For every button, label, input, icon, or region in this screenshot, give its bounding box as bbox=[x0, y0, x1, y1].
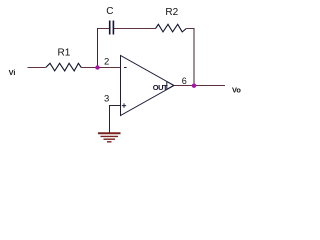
svg-text:R1: R1 bbox=[58, 47, 71, 58]
svg-text:Vi: Vi bbox=[9, 68, 16, 77]
svg-text:2: 2 bbox=[104, 57, 109, 68]
svg-text:Vo: Vo bbox=[232, 86, 241, 95]
svg-text:6: 6 bbox=[182, 76, 187, 86]
svg-text:C: C bbox=[106, 6, 113, 17]
svg-text:R2: R2 bbox=[165, 7, 178, 18]
svg-text:3: 3 bbox=[104, 94, 109, 105]
svg-text:OUT: OUT bbox=[153, 83, 168, 92]
